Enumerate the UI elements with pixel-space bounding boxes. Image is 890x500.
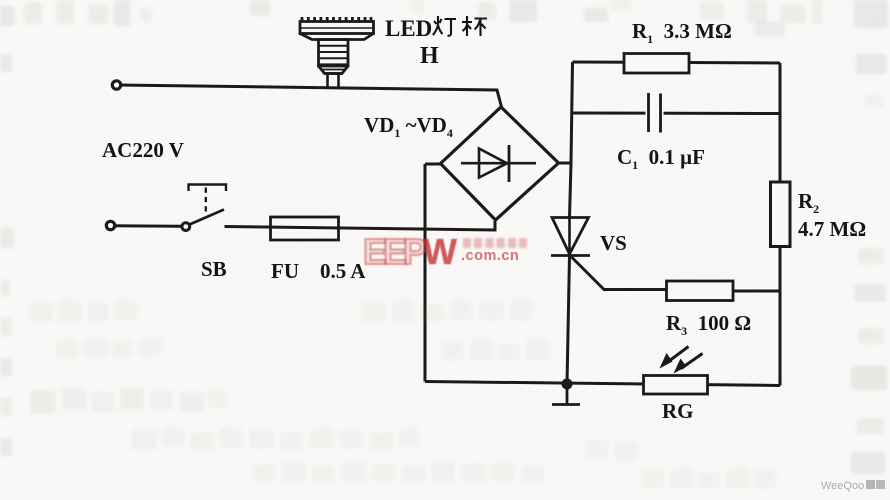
watermark EEPW xyxy=(363,237,459,268)
label: AC220 V xyxy=(102,138,184,163)
wire: top AC line to bridge xyxy=(122,85,502,107)
photoresistor RG xyxy=(644,376,708,395)
label: RG xyxy=(662,399,694,424)
terminal: top AC input xyxy=(112,81,120,89)
wire: AC to switch xyxy=(115,224,181,228)
wire: switch to fuse to bridge bottom xyxy=(225,221,496,230)
label: R1 3.3 Mohm xyxy=(632,19,732,44)
label: R2 xyxy=(798,189,819,214)
wire: right rail xyxy=(779,63,782,386)
fuse FU xyxy=(271,217,339,240)
wire: capacitor branch xyxy=(572,112,781,116)
label: 4.7 Mohm xyxy=(798,217,866,242)
ground stub xyxy=(552,384,580,405)
watermark .com.cn xyxy=(461,248,519,264)
watermark weeqoo xyxy=(821,480,885,492)
wire: DC+ top wire with R1 xyxy=(573,62,781,63)
label: VS xyxy=(600,231,627,256)
light arrows onto RG xyxy=(660,347,703,374)
label: H xyxy=(420,43,439,70)
label: C1 0.1 uF xyxy=(617,145,705,170)
resistor R3 xyxy=(667,281,781,301)
resistor R2 xyxy=(771,182,791,247)
node: junction dot on bottom rail xyxy=(562,379,573,390)
wire: bridge left vertex to left drop xyxy=(425,163,440,166)
thyristor VS xyxy=(551,218,667,385)
watermark chinese blobs xyxy=(463,238,529,248)
label: VD1~VD4 xyxy=(364,113,453,138)
lamp H (LED lamp cup) xyxy=(300,17,374,89)
resistor R1 xyxy=(624,54,689,74)
bridge rectifier VD1~VD4 xyxy=(441,107,559,220)
terminal: bottom AC input xyxy=(106,221,114,229)
wire: bottom rail xyxy=(425,382,780,386)
label: FU 0.5 A xyxy=(271,259,366,284)
switch SB (push button) xyxy=(182,185,226,231)
capacitor C1 xyxy=(646,93,664,133)
label: SB xyxy=(201,257,227,282)
label: R3 100 ohm xyxy=(666,311,751,336)
wire: bridge right vertex link xyxy=(558,162,571,165)
label: LED lamp xyxy=(385,13,488,42)
wire: left vertical drop x=425 xyxy=(424,164,427,382)
wire: left drop from top wire through cap node to bridge right and VS xyxy=(570,62,573,218)
